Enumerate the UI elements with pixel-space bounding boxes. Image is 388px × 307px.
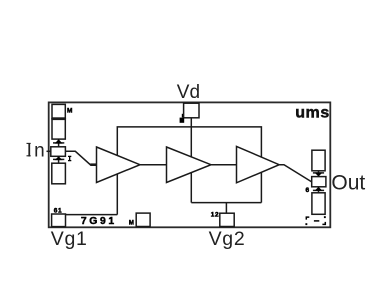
- capacitor C3 (output stack top): [312, 150, 325, 171]
- wire top drain bus: [117, 127, 261, 215]
- wire Vg1 bus: [66, 214, 118, 216]
- node D junction marker: [180, 114, 185, 123]
- op-amp U1 (first gain stage): [97, 147, 141, 183]
- svg-text:Vg1: Vg1: [51, 228, 88, 250]
- wire U1 to U2: [140, 164, 167, 166]
- arrow via A4: [313, 187, 324, 193]
- op-amp U3 (third gain stage): [237, 146, 280, 182]
- svg-text:Out: Out: [331, 171, 365, 194]
- wire U3 output to output network: [279, 165, 312, 182]
- wire input to amp U1: [65, 151, 96, 164]
- op-amp U2 (second gain stage): [167, 147, 212, 183]
- wire drain box bottom: [191, 202, 261, 204]
- wire In stub: [47, 150, 51, 152]
- chip outline border: [49, 102, 331, 227]
- pad Vd: [184, 103, 199, 118]
- capacitor C4 (output stack bottom): [312, 193, 325, 215]
- wire Vg2 tap: [225, 203, 227, 214]
- arrow via A3: [313, 171, 324, 177]
- svg-text:M: M: [129, 220, 134, 226]
- svg-text:7G91: 7G91: [81, 216, 117, 227]
- arrow via A1: [53, 139, 64, 147]
- dashed spare pad: [305, 216, 325, 225]
- arrow via A2: [53, 156, 64, 163]
- wire Vd vertical feed (behind amp U2): [190, 118, 192, 203]
- capacitor C1 (input stack top): [52, 104, 65, 118]
- svg-text:ums: ums: [295, 104, 330, 121]
- svg-text:61: 61: [54, 207, 62, 214]
- resistor R1 (input stack): [52, 119, 65, 139]
- pin label I: [68, 156, 71, 160]
- wire U2 to U3: [211, 164, 237, 166]
- svg-text:Vg2: Vg2: [209, 228, 246, 250]
- svg-text:12: 12: [211, 211, 219, 218]
- capacitor C2 (input stack bottom): [52, 163, 66, 184]
- pad unused bottom: [136, 213, 150, 226]
- pad Out: [312, 177, 326, 187]
- pad In: [51, 147, 66, 157]
- svg-text:M: M: [67, 108, 72, 115]
- pad Vg2: [220, 213, 234, 226]
- svg-text:6: 6: [306, 187, 310, 194]
- svg-text:Vd: Vd: [177, 82, 200, 103]
- pad Vg1: [52, 214, 66, 227]
